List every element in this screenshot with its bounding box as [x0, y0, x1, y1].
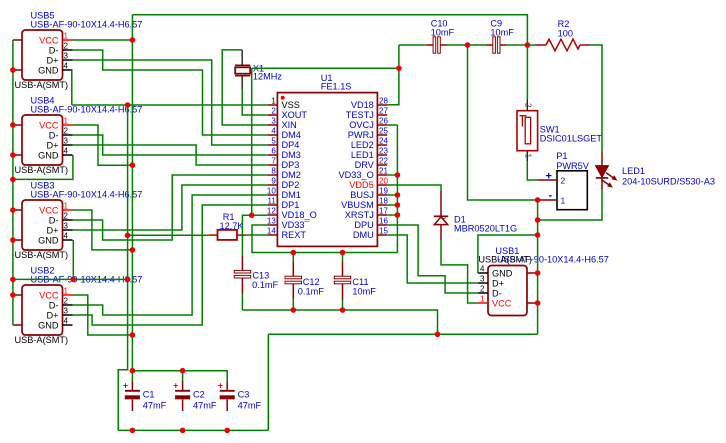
node GND vertical USB1 shield bottom [535, 300, 541, 306]
svg-text:10: 10 [267, 187, 276, 196]
wire crystal bottom to U1 XOUT [242, 89, 267, 115]
svg-text:GND: GND [38, 66, 59, 76]
svg-text:D-: D- [49, 301, 59, 311]
wire VCC rail to C1 C2 C3 tops [132, 371, 227, 381]
node shield trunk shield bus [10, 277, 16, 283]
capacitor C2 bottom lead [182, 400, 184, 412]
wire C11 top riser [342, 253, 344, 262]
svg-text:D+: D+ [46, 141, 58, 151]
svg-text:10mF: 10mF [490, 28, 514, 38]
diode D1 anode lead [440, 225, 442, 240]
svg-text:BUSJ: BUSJ [350, 190, 374, 200]
svg-text:VD33¯: VD33¯ [282, 220, 311, 230]
svg-text:4: 4 [64, 232, 69, 241]
LED1 triangle [596, 166, 609, 178]
connector USB4 pin 2 stub [63, 134, 73, 136]
connector USB4 body [22, 115, 63, 165]
wire SW1 bottom to P1 plus [527, 161, 538, 180]
wire VD33 to U1 pin 26 [387, 124, 397, 126]
svg-text:USB-AF-90-10X14.4-H6.57: USB-AF-90-10X14.4-H6.57 [31, 190, 143, 200]
node shield trunk USB3 bottom [10, 237, 16, 243]
wire C1 top riser [131, 371, 133, 381]
svg-text:VCC: VCC [39, 206, 59, 216]
wire USB4 D+ to U1 DP3 [73, 145, 268, 165]
svg-text:DM1: DM1 [282, 190, 301, 200]
wire C10 to C9 segment [446, 44, 486, 46]
svg-text:DM2: DM2 [282, 170, 301, 180]
svg-text:VCC: VCC [492, 299, 512, 309]
wire USB4 D- to U1 DM3 [73, 135, 268, 155]
svg-text:9: 9 [271, 177, 276, 186]
switch SW1 body [517, 111, 538, 151]
wire GND riser right of C3 [267, 334, 269, 430]
resistor R1 right lead [237, 234, 246, 236]
svg-text:1: 1 [524, 154, 533, 159]
node VD33 vertical pin18 [395, 202, 401, 208]
connector USB5 pin 4 stub [63, 69, 73, 71]
capacitor C3 top plate [220, 390, 235, 392]
wire USB3 D- to U1 DM2 [73, 175, 268, 240]
connector USB1 pin 4 stub [478, 272, 488, 274]
svg-text:20: 20 [379, 177, 388, 186]
svg-text:DP3: DP3 [282, 160, 300, 170]
node VD33 vertical pin17 [395, 212, 401, 218]
node VCC trunk / USB3 VCC [130, 247, 136, 253]
wire U1 VD33 pin 13 elbow to rail [252, 225, 397, 253]
svg-text:XOUT: XOUT [282, 110, 308, 120]
U1 pin 1 orientation dot [281, 96, 285, 100]
wire VD18 net vertical [251, 68, 253, 215]
wire C12 top riser [292, 253, 294, 262]
svg-text:4: 4 [64, 62, 69, 71]
wire USB4 GND to shield trunk [13, 155, 73, 179]
svg-text:10mF: 10mF [431, 28, 455, 38]
wire GND bottom rail under C1 C2 C3 [118, 429, 268, 431]
svg-text:1: 1 [480, 295, 485, 304]
node GND vertical LED line [535, 217, 541, 223]
wire U1 pin 21 to VD33 vertical [387, 174, 397, 176]
crystal X1 bottom lead [241, 76, 243, 90]
resistor R2 left lead [535, 44, 546, 46]
connector USB3 shield stub top [13, 209, 22, 211]
svg-text:1: 1 [64, 32, 69, 41]
wire 5V junction down to SW1 [526, 45, 528, 99]
wire C12 bottom to rail [292, 299, 294, 310]
svg-text:26: 26 [379, 117, 388, 126]
svg-text:D-: D- [49, 216, 59, 226]
svg-text:GND: GND [38, 236, 59, 246]
svg-text:USB-A(SMT): USB-A(SMT) [15, 335, 69, 345]
node 5V row C9 R2 SW1 [525, 42, 531, 48]
connector USB2 pin 3 stub [63, 314, 73, 316]
wire USB5 D+ to U1 DP4 [73, 60, 268, 145]
svg-text:2: 2 [561, 176, 566, 186]
wire U1 DPU to USB1 D- [387, 225, 478, 293]
svg-text:2: 2 [480, 285, 485, 294]
connector USB5 body [22, 30, 63, 80]
wire U1 VDD5 pin 20 to D1 cathode [387, 185, 441, 191]
svg-text:3: 3 [64, 137, 69, 146]
svg-text:VCC: VCC [39, 36, 59, 46]
svg-text:USB-A(SMT): USB-A(SMT) [15, 165, 69, 175]
svg-text:D+: D+ [492, 279, 504, 289]
wire R2 to LED1 anode [590, 45, 602, 152]
capacitor C11 bottom lead [342, 284, 344, 300]
capacitor C9 left lead [486, 44, 493, 46]
U1 pin 13 stub [267, 224, 277, 226]
capacitor C2 top plate [175, 390, 190, 392]
svg-text:3: 3 [64, 52, 69, 61]
capacitor C1 bottom lead [131, 400, 133, 412]
capacitor C1 bottom plate [125, 395, 140, 399]
wire USB3 D+ to U1 DP2 [73, 185, 268, 230]
wire GND horizontal to USB1 area [268, 333, 537, 335]
connector USB4 shield stub top [13, 124, 22, 126]
svg-text:11: 11 [267, 197, 276, 206]
capacitor C12 plate top [285, 276, 301, 279]
wire USB2 VCC to trunk [73, 295, 133, 335]
svg-text:DMU: DMU [353, 230, 374, 240]
svg-text:DPU: DPU [354, 220, 373, 230]
svg-text:C2: C2 [193, 390, 205, 400]
node GND vertical P1 minus [535, 197, 541, 203]
connector USB4 pin 4 stub [63, 154, 73, 156]
wire C2 top riser [182, 371, 184, 381]
svg-text:2: 2 [64, 42, 69, 51]
wire LED1 cathode to GND [538, 190, 602, 220]
wire cap row left segment to C10 [399, 44, 427, 46]
crystal X1 plate top [235, 64, 250, 66]
U1 pin 8 stub [267, 174, 277, 176]
connector USB5 pin 3 stub [63, 59, 73, 61]
diode D1 cathode lead [440, 191, 442, 216]
wire shield bus horizontal [13, 278, 128, 280]
connector USB5 pin 2 stub [63, 49, 73, 51]
svg-text:VCC: VCC [39, 291, 59, 301]
svg-text:0.1mF: 0.1mF [298, 286, 324, 296]
svg-text:VD33_O: VD33_O [339, 170, 374, 180]
connector USB4 pin 3 stub [63, 144, 73, 146]
capacitor C11 top lead [342, 261, 344, 276]
node GND rail / C1 bottom [130, 428, 136, 434]
capacitor C12 bottom lead [292, 284, 294, 300]
capacitor C3 bottom lead [226, 400, 228, 412]
svg-text:D-: D- [49, 131, 59, 141]
capacitor C2 bottom plate [175, 395, 190, 399]
svg-text:47mF: 47mF [143, 401, 167, 411]
node shield trunk USB3 top [10, 207, 16, 213]
svg-text:4: 4 [271, 127, 276, 136]
resistor R1 body [218, 230, 238, 240]
svg-text:VDD5: VDD5 [349, 180, 374, 190]
node shield trunk USB4 bottom [10, 152, 16, 158]
wire USB2 D+ to U1 DP1 [73, 205, 268, 325]
U1 pin 27 stub [377, 114, 387, 116]
resistor R1 left lead [209, 234, 218, 236]
node VCC trunk / USB5 VCC [130, 37, 136, 43]
svg-text:LED1: LED1 [622, 166, 645, 176]
svg-text:XIN: XIN [282, 120, 297, 130]
svg-text:D-: D- [49, 46, 59, 56]
svg-text:R2: R2 [558, 19, 570, 29]
svg-text:18: 18 [379, 197, 388, 206]
node cap ground rail to GND line [435, 332, 441, 338]
svg-text:21: 21 [379, 167, 388, 176]
node VCC trunk / C rail [130, 368, 136, 374]
wire U1 pin 19 to VD33 vertical [387, 194, 397, 196]
svg-text:DP1: DP1 [282, 200, 300, 210]
svg-text:P1: P1 [556, 151, 567, 161]
U1 pin 7 stub [267, 164, 277, 166]
connector USB3 pin 3 stub [63, 229, 73, 231]
wire C9 to R2 segment [506, 44, 535, 46]
connector USB5 shield stub top [13, 39, 22, 41]
svg-text:6: 6 [271, 147, 276, 156]
U1 pin 10 stub [267, 194, 277, 196]
crystal X1 top lead [241, 50, 243, 65]
node shield bus USB3 GND [71, 277, 77, 283]
wire USB5 VCC to trunk [73, 39, 133, 41]
node 5V row C10 C9 GND tap [465, 42, 471, 48]
connector USB1 pin 1 stub [478, 302, 488, 304]
svg-text:16: 16 [379, 217, 388, 226]
connector USB1 body [488, 266, 527, 316]
wire crystal top to U1 XIN [222, 50, 267, 125]
connector USB3 pin 1 stub [63, 209, 73, 211]
svg-text:19: 19 [379, 187, 388, 196]
capacitor C13 plate bottom [234, 275, 250, 278]
capacitor C11 plate bottom [334, 281, 350, 284]
svg-text:3: 3 [64, 307, 69, 316]
node VCC trunk / USB2 VCC [130, 332, 136, 338]
svg-text:+: + [123, 380, 128, 390]
svg-text:0.1mF: 0.1mF [252, 280, 278, 290]
svg-text:47mF: 47mF [238, 401, 262, 411]
switch SW1 lever mark [520, 115, 527, 117]
wire C13 bottom to rail [241, 294, 243, 310]
svg-text:DM3: DM3 [282, 150, 301, 160]
connector USB4 shield stub bottom [13, 154, 22, 156]
connector USB4 pin 1 stub [63, 124, 73, 126]
svg-text:DM4: DM4 [282, 130, 301, 140]
node shield trunk USB4 GND [10, 177, 16, 183]
node VD33 rail C12 [291, 250, 297, 256]
capacitor C13 plate top [234, 270, 250, 273]
node VD33 vertical pin19 [395, 192, 401, 198]
wire USB5 D- to U1 DM4 [73, 50, 268, 135]
svg-text:XRSTJ: XRSTJ [345, 210, 374, 220]
U1 pin 16 stub [377, 224, 387, 226]
node GND trunk / R1 line [125, 233, 131, 239]
connector USB2 pin 1 stub [63, 294, 73, 296]
svg-text:100: 100 [558, 29, 573, 39]
connector P1 body [557, 171, 587, 210]
svg-text:DP2: DP2 [282, 180, 300, 190]
svg-text:1: 1 [271, 97, 276, 106]
capacitor C9 plate right [497, 37, 500, 53]
svg-text:VD18: VD18 [351, 100, 374, 110]
connector USB3 pin 2 stub [63, 219, 73, 221]
capacitor C1 top plate [125, 390, 140, 392]
U1 pin 26 stub [377, 124, 387, 126]
svg-text:17: 17 [379, 207, 388, 216]
wire U1 DMU to USB1 D+ [387, 235, 478, 283]
node GND rail / C3 bottom [224, 428, 230, 434]
svg-text:28: 28 [379, 97, 388, 106]
svg-text:GND: GND [492, 269, 513, 279]
switch SW1 bottom pin stub [526, 151, 528, 162]
node shield trunk USB4 top [10, 122, 16, 128]
U1 pin 23 stub [377, 154, 387, 156]
U1 pin 6 stub [267, 154, 277, 156]
svg-text:3: 3 [64, 222, 69, 231]
svg-text:USB-A(SMT): USB-A(SMT) [15, 250, 69, 260]
svg-text:5: 5 [271, 137, 276, 146]
capacitor C9 right lead [500, 44, 507, 46]
svg-text:D+: D+ [46, 56, 58, 66]
svg-text:DSIC01LSGET: DSIC01LSGET [540, 134, 603, 144]
wire USB1 GND to GND vertical [478, 235, 538, 273]
node GND vertical USB1 GND [535, 232, 541, 238]
U1 pin 3 stub [267, 124, 277, 126]
U1 pin 2 stub [267, 114, 277, 116]
wire capacitor C11-C13 ground rail [242, 310, 437, 334]
connector USB2 pin 2 stub [63, 304, 73, 306]
LED1 anode lead [601, 152, 603, 166]
svg-text:VBUSM: VBUSM [341, 200, 374, 210]
svg-text:1: 1 [64, 117, 69, 126]
connector USB3 shield stub bottom [13, 239, 22, 241]
wire VD18 branch to C13 [242, 215, 251, 255]
connector USB1 shield stub top [527, 272, 538, 274]
svg-text:PWR5V: PWR5V [556, 161, 590, 171]
svg-text:DRV: DRV [355, 160, 375, 170]
svg-text:1: 1 [561, 196, 566, 206]
wire D1 anode to USB1 VCC [441, 240, 478, 303]
crystal X1 body [235, 67, 250, 73]
node VD33 rail C11 [340, 250, 346, 256]
connector USB2 shield stub bottom [13, 324, 22, 326]
connector USB2 body [22, 285, 63, 335]
wire USB5 GND drop [71, 70, 73, 105]
wire USB3 GND drop to shield bus [72, 240, 74, 279]
svg-text:GND: GND [38, 321, 59, 331]
svg-text:8: 8 [271, 167, 276, 176]
connector USB1 shield stub bottom [527, 302, 538, 304]
svg-text:D+: D+ [46, 226, 58, 236]
svg-text:USB-AF-90-10X14.4-H6.57: USB-AF-90-10X14.4-H6.57 [31, 20, 143, 30]
connector P1 pin 1 stub [538, 199, 557, 201]
LED1 arrow 2 [602, 180, 612, 186]
node GND vertical USB1 shield top [535, 270, 541, 276]
capacitor C11 plate top [334, 276, 350, 279]
connector USB1 pin 2 stub [478, 292, 488, 294]
capacitor C13 bottom lead [241, 278, 243, 294]
svg-text:25: 25 [379, 127, 388, 136]
svg-text:USB-A(SMT): USB-A(SMT) [15, 80, 69, 90]
svg-text:4: 4 [64, 317, 69, 326]
connector USB2 pin 4 stub [63, 324, 73, 326]
svg-text:+: + [173, 380, 178, 390]
capacitor C1 top lead [131, 381, 133, 390]
U1 pin 4 stub [267, 134, 277, 136]
crystal X1 plate bottom [235, 75, 250, 77]
U1 pin 11 stub [267, 204, 277, 206]
wire USB2 D- to U1 DM1 [73, 195, 268, 315]
connector USB1 pin 3 stub [478, 282, 488, 284]
U1 pin 25 stub [377, 134, 387, 136]
svg-text:23: 23 [379, 147, 388, 156]
LED1 cathode lead [601, 178, 603, 190]
switch SW1 top pin stub [526, 99, 528, 111]
svg-text:3: 3 [271, 117, 276, 126]
U1 pin 28 stub [377, 104, 387, 106]
capacitor C2 top lead [182, 381, 184, 390]
svg-text:14: 14 [267, 227, 276, 236]
svg-text:USB-A(SMT): USB-A(SMT) [478, 255, 532, 265]
capacitor C3 top lead [226, 381, 228, 390]
svg-text:OVCJ: OVCJ [349, 120, 374, 130]
capacitor C3 bottom plate [220, 395, 235, 399]
svg-text:TESTJ: TESTJ [346, 110, 374, 120]
capacitor C13 top lead [241, 256, 243, 271]
svg-text:2: 2 [438, 215, 447, 220]
svg-text:13: 13 [267, 217, 276, 226]
node GND trunk / shield bus [125, 277, 131, 283]
connector USB5 shield stub bottom [13, 69, 22, 71]
node cap ground rail C11 [340, 307, 346, 313]
svg-text:10mF: 10mF [352, 286, 376, 296]
U1 pin 14 stub [267, 234, 277, 236]
U1 pin 19 stub [377, 194, 387, 196]
svg-text:12: 12 [267, 207, 276, 216]
node shield trunk USB2 top [10, 292, 16, 298]
svg-text:12MHz: 12MHz [253, 72, 283, 82]
wire VD18 net horizontal to cap row [252, 67, 399, 69]
svg-text:2: 2 [64, 212, 69, 221]
wire R1 to GND trunk [128, 234, 209, 236]
capacitor C10 plate left [433, 37, 436, 53]
svg-text:LED2: LED2 [351, 140, 374, 150]
svg-text:VD18_O: VD18_O [282, 210, 317, 220]
wire U1 pin 17 to VD33 vertical [387, 214, 397, 216]
node VCC trunk / USB4 VCC [130, 162, 136, 168]
U1 pin 1 stub [267, 104, 277, 106]
wire VD18 branch to U1 pin 12 [252, 214, 268, 216]
LED1 arrow 1 [606, 173, 616, 179]
svg-text:MBR0520LT1G: MBR0520LT1G [454, 223, 517, 233]
U1 pin 9 stub [267, 184, 277, 186]
U1 pin 24 stub [377, 144, 387, 146]
svg-text:2: 2 [271, 107, 276, 116]
wire VD18 drop to U1 pin 28 [387, 45, 399, 105]
svg-text:VCC: VCC [39, 121, 59, 131]
U1 pin 15 stub [377, 234, 387, 236]
capacitor C12 top lead [292, 261, 294, 276]
svg-text:15: 15 [379, 227, 388, 236]
svg-text:C3: C3 [238, 390, 250, 400]
svg-text:4: 4 [480, 265, 485, 274]
svg-text:47mF: 47mF [193, 401, 217, 411]
connector USB2 shield stub top [13, 294, 22, 296]
svg-text:2: 2 [64, 127, 69, 136]
svg-text:GND: GND [38, 151, 59, 161]
svg-text:C1: C1 [143, 390, 155, 400]
node shield trunk USB5 bottom [10, 67, 16, 73]
resistor R2 zigzag body [546, 39, 580, 51]
node VD18 horizontal / drop to pin28 [396, 66, 402, 72]
connector USB3 body [22, 200, 63, 250]
